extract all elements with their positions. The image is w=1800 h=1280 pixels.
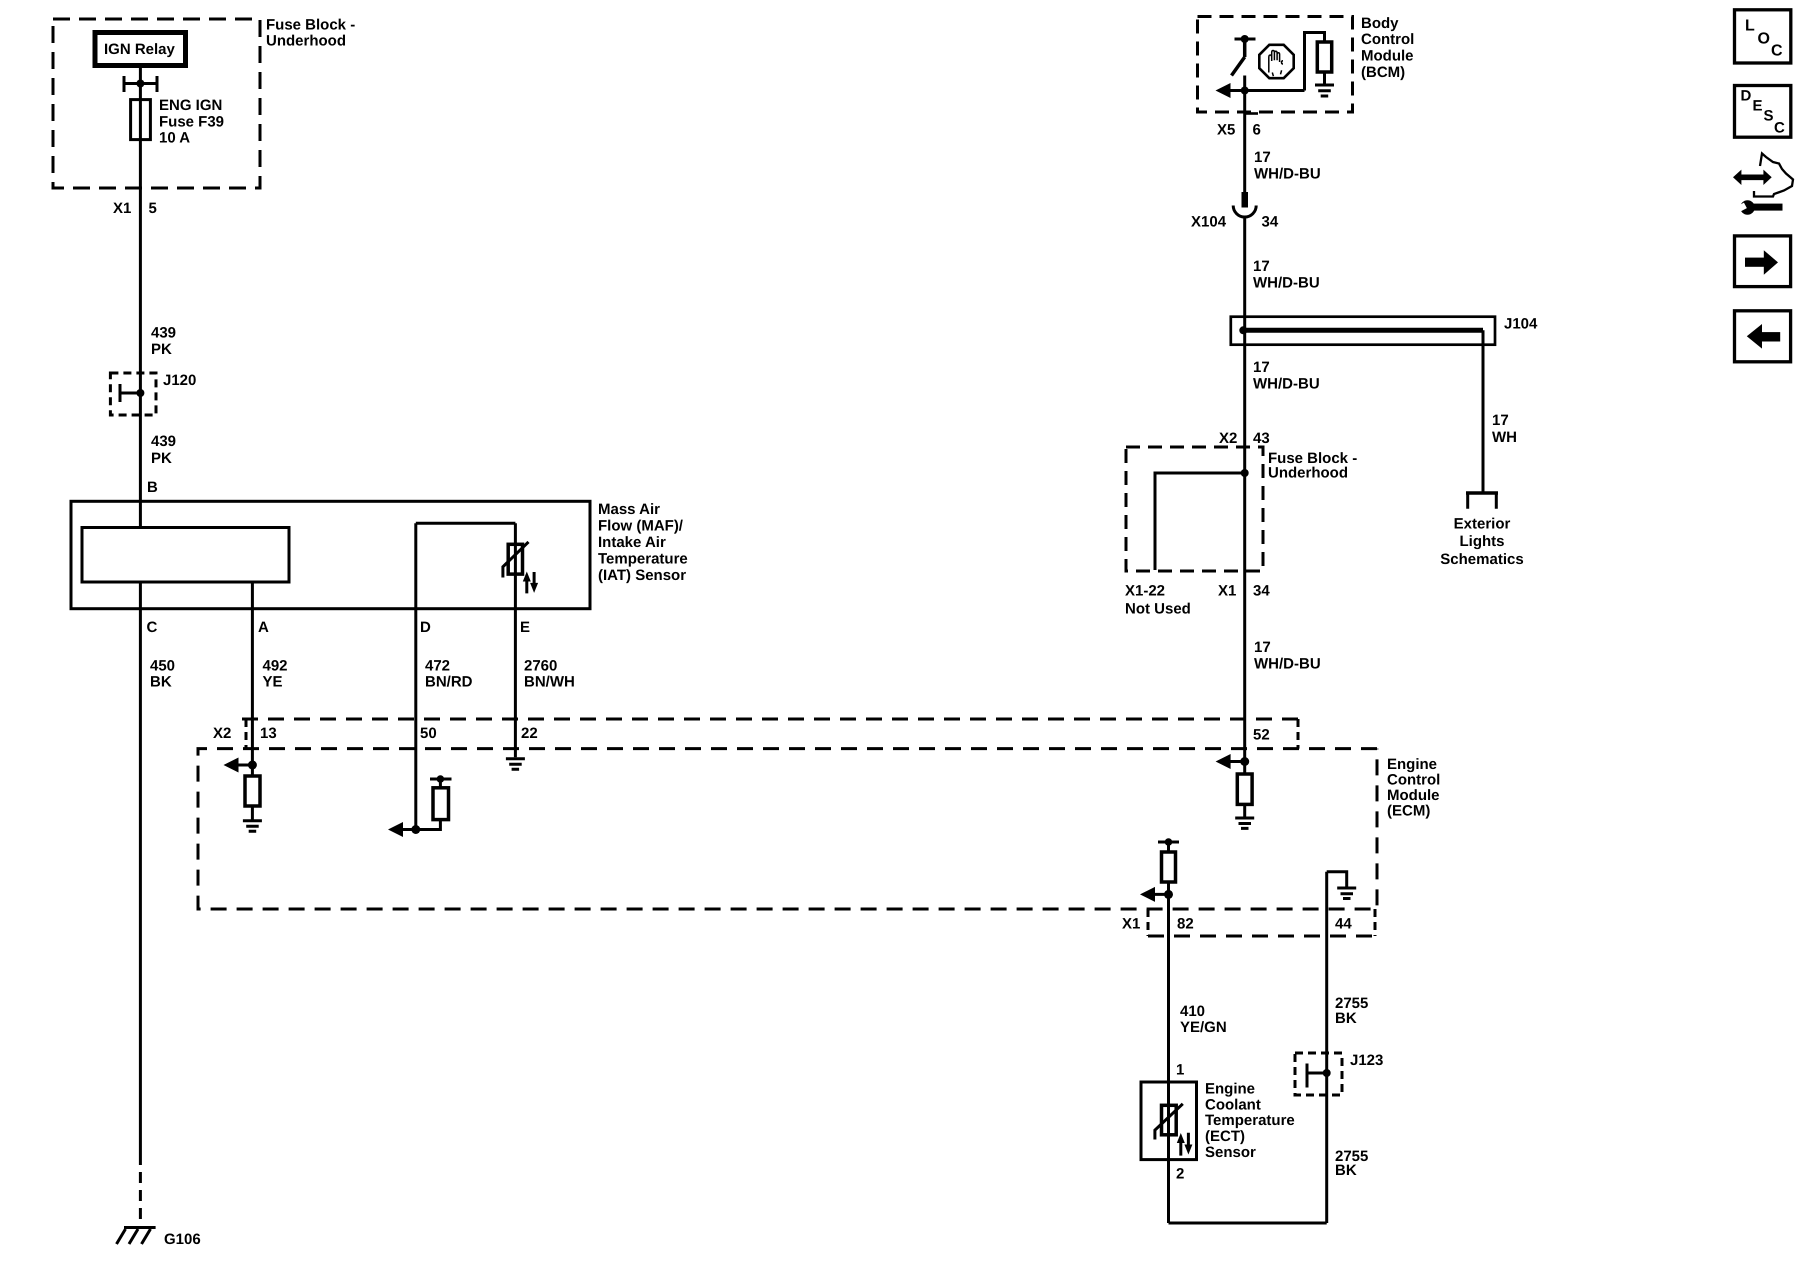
ECM pin 13 internal resistor [251, 765, 254, 776]
thermistor IAT diagonal arrow [503, 542, 529, 578]
svg-text:Schematics: Schematics [1440, 551, 1523, 568]
label 52 (ECM pin) [1253, 727, 1270, 744]
label 2755 BK (upper) [1335, 995, 1368, 1027]
svg-text:Flow (MAF)/: Flow (MAF)/ [598, 518, 684, 535]
wire IAT top link D to E [416, 522, 516, 525]
svg-text:BN/WH: BN/WH [524, 674, 575, 691]
svg-text:BK: BK [1335, 1010, 1357, 1027]
svg-text:WH/D-BU: WH/D-BU [1253, 275, 1320, 292]
label Exterior Lights Schematics [1440, 516, 1523, 569]
ECM pin 52 internal ground [1235, 818, 1254, 828]
ECM pin 82 arrow [1152, 893, 1169, 896]
svg-text:439: 439 [151, 433, 176, 450]
label X5 6 [1217, 122, 1261, 139]
svg-text:Control: Control [1387, 772, 1440, 789]
svg-text:Engine: Engine [1205, 1081, 1255, 1098]
svg-text:Exterior: Exterior [1454, 516, 1511, 533]
ECM connector row X2 right corner [1297, 719, 1300, 749]
splice pack J104 bus bar [1243, 328, 1483, 333]
svg-text:(ECT): (ECT) [1205, 1128, 1245, 1145]
svg-text:6: 6 [1253, 122, 1261, 139]
sidebar back (left arrow) button [1735, 311, 1791, 362]
wire ECT pin 2 bottom link [1169, 1222, 1327, 1225]
BCM internal resistor branch [1305, 33, 1325, 91]
svg-text:YE/GN: YE/GN [1180, 1019, 1227, 1036]
ground G106 symbol [117, 1228, 156, 1245]
svg-text:G106: G106 [164, 1231, 201, 1248]
svg-text:410: 410 [1180, 1003, 1205, 1020]
svg-text:Module: Module [1387, 787, 1440, 804]
label 439 PK (upper) [151, 325, 176, 359]
ECM pin 82 pull-up bar [1158, 841, 1179, 844]
svg-text:Body: Body [1361, 15, 1399, 32]
ECM pin 50 junction dot [411, 825, 420, 834]
splice J120 symbol [120, 384, 140, 402]
label Fuse Block - Underhood (right) [1268, 450, 1357, 482]
ECM pin 44 internal ground [1337, 888, 1356, 899]
svg-text:X104: X104 [1191, 214, 1227, 231]
label IGN Relay [104, 41, 176, 58]
label X2 13 50 22 (ECM row) [213, 725, 538, 742]
svg-text:17: 17 [1492, 412, 1509, 429]
splice J123 dot [1323, 1069, 1331, 1077]
fuse block underhood box (top left) [53, 19, 260, 188]
svg-text:Sensor: Sensor [1205, 1144, 1256, 1161]
svg-text:50: 50 [420, 725, 437, 742]
svg-text:Temperature: Temperature [598, 551, 688, 568]
svg-text:E: E [520, 619, 530, 636]
label 439 PK (lower) [151, 433, 176, 467]
thermistor IAT box [508, 544, 522, 574]
BCM arrow junction dot [1241, 87, 1249, 95]
svg-text:Temperature: Temperature [1205, 1112, 1295, 1129]
BCM output wire [1243, 76, 1246, 193]
thermistor IAT double arrows [527, 572, 534, 593]
label ENG IGN Fuse F39 10 A [159, 97, 224, 147]
relay K-IGN box [95, 33, 186, 66]
label Mass Air Flow (MAF)/ Intake Air Temperature (IAT) Sensor [598, 501, 688, 584]
svg-text:Module: Module [1361, 48, 1414, 65]
sidebar car outline icon [1754, 154, 1793, 197]
svg-text:E: E [1753, 98, 1763, 115]
svg-text:43: 43 [1253, 430, 1270, 447]
label pin 2 [1176, 1166, 1184, 1183]
ECM pin 13 junction dot [248, 761, 257, 770]
ECM bottom connector row X1 dashed line [1148, 935, 1375, 938]
svg-text:(ECM): (ECM) [1387, 803, 1430, 820]
wire 439 PK from fuse block to MAF pin B [139, 140, 142, 502]
svg-text:22: 22 [521, 725, 538, 742]
ECM pin 13 arrow [236, 764, 252, 767]
svg-text:17: 17 [1253, 359, 1270, 376]
svg-text:439: 439 [151, 325, 176, 342]
splice J123 symbol [1307, 1064, 1327, 1088]
BCM internal ground [1315, 85, 1334, 96]
svg-text:BN/RD: BN/RD [425, 674, 473, 691]
svg-text:X1: X1 [1122, 916, 1140, 933]
ECM pin 44 internal ground elbow [1327, 872, 1347, 887]
label 2755 BK (lower) [1335, 1148, 1368, 1179]
connector X104 terminal [1242, 192, 1249, 208]
svg-text:Not Used: Not Used [1125, 601, 1191, 618]
BCM hand icon [1269, 51, 1283, 77]
svg-text:Control: Control [1361, 31, 1414, 48]
svg-text:X1: X1 [1218, 583, 1236, 600]
ECM pin 50 pull-up resistor [416, 779, 452, 830]
fuse block right branch dot [1241, 469, 1249, 477]
label pins C A D E [147, 619, 531, 636]
ECM connector row X2 top dashed line [242, 718, 1298, 721]
label 2760 BN/WH [524, 658, 575, 691]
BCM arrow line [1228, 89, 1305, 92]
svg-text:A: A [258, 619, 269, 636]
ECM pin 82 junction dot [1164, 890, 1173, 899]
splice J120 box [110, 373, 156, 415]
label X1-22 Not Used [1125, 583, 1191, 618]
MAF connector inner box [82, 528, 289, 583]
label 492 YE [263, 658, 288, 691]
off-page connector bracket [1466, 491, 1498, 495]
ECM box dashed outline [198, 749, 1377, 909]
svg-text:X1-22: X1-22 [1125, 583, 1165, 600]
svg-text:(BCM): (BCM) [1361, 64, 1405, 81]
BCM switch stub and lever [1232, 39, 1245, 76]
svg-text:2760: 2760 [524, 658, 557, 675]
thermistor ECT box [1162, 1105, 1177, 1135]
svg-text:C: C [1771, 43, 1783, 60]
svg-text:10 A: 10 A [159, 130, 190, 147]
wire BCM to J104 [1243, 217, 1246, 330]
wire 2755 BK pin 44 down [1325, 872, 1328, 1223]
label Body Control Module (BCM) [1361, 15, 1414, 81]
wire 450 BK dashed lower portion [139, 1154, 142, 1226]
wire 410 YE/GN pin 82 to ECT pin 1 [1167, 894, 1170, 1223]
svg-text:52: 52 [1253, 727, 1270, 744]
junction dot under relay [136, 80, 144, 88]
label J120 [163, 372, 196, 389]
thermistor ECT double arrows [1181, 1133, 1189, 1156]
splice J123 box [1295, 1053, 1342, 1095]
ECM pin 52 arrow [1228, 760, 1245, 763]
svg-text:S: S [1764, 108, 1774, 125]
svg-text:L: L [1745, 18, 1755, 35]
svg-text:1: 1 [1176, 1062, 1184, 1079]
ECM pin 50 pull-up dot [437, 775, 445, 783]
label 17 WH/D-BU (second) [1253, 258, 1320, 292]
BCM X5 tick [1245, 112, 1258, 115]
svg-text:34: 34 [1262, 214, 1279, 231]
svg-text:82: 82 [1177, 916, 1194, 933]
splice pack J104 dot [1239, 326, 1247, 334]
svg-text:Lights: Lights [1460, 533, 1505, 550]
svg-text:J123: J123 [1350, 1052, 1383, 1069]
sidebar wrench icon [1740, 200, 1755, 215]
svg-text:Underhood: Underhood [1268, 465, 1348, 482]
ECM pin 52 junction dot [1240, 757, 1249, 766]
BCM switch top dot [1241, 35, 1249, 43]
svg-text:Fuse Block -: Fuse Block - [266, 17, 355, 34]
fuse block underhood box (right) [1126, 447, 1263, 571]
thermistor ECT diagonal arrow [1155, 1104, 1183, 1140]
svg-text:IGN Relay: IGN Relay [104, 41, 176, 58]
wire pin B inside MAF [139, 501, 142, 527]
label Fuse Block - Underhood (top left) [266, 17, 355, 50]
splice J120 dot [136, 389, 144, 397]
svg-text:Coolant: Coolant [1205, 1097, 1261, 1114]
svg-text:O: O [1758, 31, 1770, 48]
svg-text:ENG IGN: ENG IGN [159, 97, 222, 114]
svg-text:450: 450 [150, 658, 175, 675]
ECM pin 82 internal resistor [1167, 842, 1170, 852]
svg-text:J120: J120 [163, 372, 196, 389]
svg-text:WH/D-BU: WH/D-BU [1253, 376, 1320, 393]
connector X104 arc [1233, 206, 1256, 218]
label pin 1 [1176, 1062, 1184, 1079]
label 410 YE/GN [1180, 1003, 1227, 1036]
label 17 WH/D-BU (fourth) [1254, 639, 1321, 673]
svg-text:44: 44 [1335, 916, 1352, 933]
svg-text:Intake Air: Intake Air [598, 534, 666, 551]
svg-text:J104: J104 [1504, 316, 1538, 333]
svg-text:PK: PK [151, 341, 172, 358]
ECM pin 22 internal ground [506, 759, 525, 770]
label 17 WH/D-BU (first) [1254, 149, 1321, 183]
label 17 WH [1492, 412, 1517, 446]
svg-text:472: 472 [425, 658, 450, 675]
label pin B [147, 479, 158, 496]
svg-text:(IAT) Sensor: (IAT) Sensor [598, 567, 686, 584]
wire 492 YE pin A down [251, 582, 254, 765]
svg-text:13: 13 [260, 725, 277, 742]
sidebar DESC button [1735, 86, 1791, 138]
svg-text:D: D [420, 619, 431, 636]
svg-text:17: 17 [1253, 258, 1270, 275]
ECM bottom row right tick [1374, 909, 1377, 936]
label 450 BK [150, 658, 175, 691]
sidebar double arrow icon [1739, 175, 1765, 181]
svg-text:BK: BK [1335, 1162, 1357, 1179]
BCM box dashed outline [1198, 17, 1353, 113]
svg-text:PK: PK [151, 450, 172, 467]
label X104 34 [1191, 214, 1279, 231]
label Engine Control Module (ECM) [1387, 756, 1440, 820]
fuse F39 [131, 100, 151, 140]
label 17 WH/D-BU (third) [1253, 359, 1320, 393]
svg-text:Engine: Engine [1387, 756, 1437, 773]
wire through fuse [139, 100, 142, 140]
wire J104 right leg 17 WH [1482, 330, 1485, 492]
svg-text:B: B [147, 479, 158, 496]
svg-text:Fuse F39: Fuse F39 [159, 114, 224, 131]
ECM connector row X2 left tick [245, 719, 248, 749]
splice pack J104 box [1231, 317, 1495, 345]
ECT sensor box [1141, 1082, 1197, 1160]
label 472 BN/RD [425, 658, 473, 691]
fuse block right internal branch [1155, 473, 1245, 570]
svg-text:Underhood: Underhood [266, 33, 346, 50]
label Engine Coolant Temperature (ECT) Sensor [1205, 1081, 1295, 1162]
label J123 [1350, 1052, 1383, 1069]
svg-text:492: 492 [263, 658, 288, 675]
svg-text:17: 17 [1254, 149, 1271, 166]
ECM pin 50 arrow [400, 828, 416, 831]
svg-text:17: 17 [1254, 639, 1271, 656]
sidebar LOC button [1735, 10, 1791, 63]
svg-text:5: 5 [149, 200, 157, 217]
BCM octagon icon [1259, 45, 1293, 78]
svg-text:WH/D-BU: WH/D-BU [1254, 656, 1321, 673]
ECM pin 52 internal resistor [1243, 762, 1246, 775]
svg-text:C: C [1774, 120, 1785, 137]
wire 450 BK pin C down [139, 582, 142, 1154]
svg-text:34: 34 [1253, 583, 1270, 600]
svg-text:Mass Air: Mass Air [598, 501, 660, 518]
svg-text:WH: WH [1492, 429, 1517, 446]
wire 472 BN/RD pin D down [414, 523, 417, 829]
ECM pin 13 internal ground [243, 821, 262, 831]
wire relay output [139, 66, 142, 101]
svg-text:X2: X2 [1219, 430, 1237, 447]
MAF/IAT sensor outer box [71, 501, 590, 608]
sidebar next (right arrow) button [1735, 236, 1791, 287]
svg-text:YE: YE [263, 674, 283, 691]
svg-text:C: C [147, 619, 158, 636]
ECM bottom row left tick [1147, 909, 1150, 936]
label X1 82 44 (ECM bottom row) [1122, 916, 1352, 933]
svg-text:X5: X5 [1217, 122, 1235, 139]
label X1 34 [1218, 583, 1270, 600]
BCM switch top bar [1235, 38, 1256, 41]
terminal bracket under relay [124, 76, 157, 92]
label G106 [164, 1231, 201, 1248]
label J104 [1504, 316, 1538, 333]
label X2 43 [1219, 430, 1270, 447]
wire J104 down to ECM pin 52 [1243, 330, 1246, 761]
svg-text:D: D [1741, 88, 1752, 105]
svg-text:BK: BK [150, 674, 172, 691]
label X1 5 [113, 200, 157, 217]
svg-text:WH/D-BU: WH/D-BU [1254, 166, 1321, 183]
ECM pin 82 pull-up dot [1165, 838, 1173, 846]
svg-text:2: 2 [1176, 1166, 1184, 1183]
svg-text:X2: X2 [213, 725, 231, 742]
svg-text:X1: X1 [113, 200, 131, 217]
wire pin E / IAT element vertical [514, 523, 517, 757]
